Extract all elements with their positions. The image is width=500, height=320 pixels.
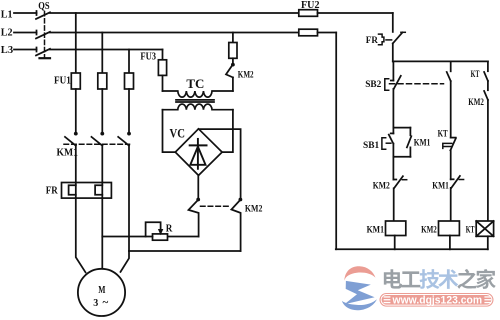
wire SB1 to KM2nc (392, 157, 394, 180)
resistor R body (153, 234, 168, 240)
watermark text 术 (438, 269, 458, 289)
wire phase W drop (128, 50, 130, 74)
watermark logo red arc (344, 266, 375, 280)
svg-text:SB2: SB2 (365, 80, 381, 90)
wire R to phase V (102, 236, 152, 238)
switch QS pole 3 (36, 48, 38, 52)
watermark text 之 (457, 269, 477, 289)
wire L2 tap to fuse (232, 33, 234, 43)
svg-text:KT: KT (471, 70, 480, 80)
wire L3 bus (50, 49, 163, 51)
svg-text:M: M (98, 285, 106, 296)
resistor R tap loop (146, 222, 161, 236)
wire SB2 to SB1 (392, 89, 394, 128)
contactor KM2 interlock contact (393, 179, 396, 181)
wire SB1 lower (392, 144, 394, 157)
svg-text:L2: L2 (1, 27, 13, 38)
transformer TC primary (163, 91, 233, 97)
contactor KM1 pole 2 (100, 132, 104, 136)
wire KM2nc to coil (393, 188, 395, 221)
button SB2 contact (394, 76, 401, 89)
svg-text:L1: L1 (1, 9, 13, 20)
svg-text:L3: L3 (1, 45, 13, 56)
resistor R arrow (158, 229, 163, 235)
svg-text:KM2: KM2 (468, 98, 484, 108)
wire L2 bus (50, 32, 299, 34)
watermark pill marks (384, 296, 391, 297)
fuse FU2b (299, 29, 318, 36)
fuse FU1c (125, 73, 134, 89)
wire U KM1 to FR (75, 146, 77, 183)
svg-text:KM2: KM2 (373, 182, 390, 192)
wire L1 bus (50, 12, 299, 14)
transformer TC secondary (163, 104, 233, 110)
svg-text:R: R (166, 223, 173, 234)
wire L2 feed (14, 32, 37, 34)
switch QS pole 2 (36, 31, 38, 35)
wire control bottom rail (336, 248, 488, 250)
wire DC- to R (168, 236, 199, 238)
wire VC+ output (199, 129, 241, 198)
wire far right drop (487, 61, 489, 71)
wire L1 feed (14, 12, 37, 14)
wire KM2 coil to rail (449, 236, 451, 250)
wire L1 to control (318, 12, 393, 14)
svg-text:KM2: KM2 (245, 205, 263, 215)
contactor KM2 brake linkage (201, 205, 231, 207)
wire TC sec left to VC (163, 110, 176, 152)
contactor KM1 pole 3 (127, 132, 131, 136)
svg-text:KM1: KM1 (414, 139, 431, 149)
wire W to motor (121, 251, 130, 272)
watermark pill (380, 293, 494, 307)
coil KT (476, 221, 493, 236)
switch QS pole 1 (36, 11, 38, 15)
fuse FU4 (229, 43, 237, 59)
button SB1 parallel top (393, 127, 410, 129)
svg-text:FR: FR (366, 36, 378, 46)
svg-text:TC: TC (186, 77, 204, 91)
wire KT to KM1nc (450, 150, 452, 179)
watermark text 家 (476, 269, 496, 289)
switch QS linkage (44, 12, 46, 57)
button SB1 contact (392, 128, 394, 134)
svg-text:www.dgjs123.com: www.dgjs123.com (392, 295, 482, 307)
wire TC sec right to VC (222, 110, 233, 152)
watermark text 工 (401, 271, 420, 287)
svg-text:3: 3 (93, 298, 98, 309)
wire SB2 upper (392, 61, 394, 80)
relay KT delayed contact (451, 137, 456, 139)
contactor KM1 linkage (64, 143, 130, 145)
wire SB2no to KT (450, 81, 452, 138)
rectifier VC bridge (175, 129, 222, 176)
contactor KM1 interlock contact (451, 178, 454, 180)
svg-text:KM1: KM1 (432, 182, 449, 192)
contactor KM2 brake pole A (196, 198, 200, 202)
wire KT to KM2no (487, 81, 489, 90)
button SB1 parallel bottom (393, 156, 410, 158)
contactor KM2 pilot contact (231, 63, 235, 67)
transformer TC core (176, 99, 214, 101)
motor M circle (78, 269, 125, 316)
wire U fuse to KM1 (75, 89, 77, 132)
svg-text:KT: KT (466, 225, 475, 235)
svg-text:SB1: SB1 (363, 141, 379, 151)
coil KM2 (439, 221, 460, 236)
watermark logo bolt (344, 281, 374, 304)
wire KM2no to KT coil (487, 100, 489, 221)
wire L3 to FU3 (162, 50, 164, 60)
wire V KM1 to FR (101, 146, 103, 183)
wire DC+ to phase W (129, 250, 241, 252)
watermark logo blue arc (342, 299, 377, 310)
wire U FR to motor (76, 198, 86, 272)
svg-text:~: ~ (103, 297, 109, 309)
coil KM1 (386, 221, 406, 236)
contactor KM1 pole 1 (74, 132, 78, 136)
svg-text:KT: KT (438, 130, 449, 140)
wire L3 feed (14, 49, 37, 51)
wire V FR to motor (101, 198, 103, 269)
contactor KM2 aux contact (484, 91, 488, 100)
relay FR heater V (101, 183, 103, 199)
fuse FU1a (71, 73, 80, 89)
relay FR box (62, 183, 112, 199)
button SB2 linkage (390, 83, 444, 85)
wire phase V drop (101, 33, 103, 74)
wire KM2 to TC (232, 77, 234, 91)
wire V fuse to KM1 (101, 89, 103, 132)
wire fuse to KM2 contact (232, 58, 234, 63)
svg-text:FU1: FU1 (54, 76, 71, 87)
svg-text:KM1: KM1 (367, 225, 385, 235)
watermark text 技 (420, 269, 440, 289)
svg-text:KM2: KM2 (421, 225, 437, 235)
wire VC- output (197, 175, 199, 197)
fuse FU3 (158, 60, 166, 76)
rectifier VC diode (197, 139, 199, 169)
relay FR control contact (379, 34, 384, 45)
watermark text 电 (384, 269, 402, 288)
svg-text:KM1: KM1 (57, 148, 79, 159)
relay FR heater U (75, 183, 77, 199)
wire control top bus (393, 60, 488, 62)
wire KM1 coil to rail (394, 236, 396, 250)
svg-text:KM2: KM2 (238, 70, 254, 80)
button SB2 no contact (450, 61, 452, 71)
wire L2 to control rail (318, 32, 337, 34)
wire control left rail (335, 33, 337, 250)
wire KM1nc to coil (450, 188, 452, 221)
wire phase U drop (75, 13, 77, 73)
contactor KM1 aux contact (409, 128, 411, 136)
wire W fuse to KM1 (128, 89, 130, 132)
svg-text:QS: QS (38, 1, 50, 12)
relay KT aux contact (484, 72, 488, 81)
svg-text:VC: VC (170, 127, 186, 141)
wire FU3 to TC (162, 75, 164, 91)
fuse FU2a (299, 10, 318, 17)
fuse FU1b (98, 73, 107, 89)
contactor KM2 brake pole B (239, 198, 243, 202)
svg-text:FU3: FU3 (140, 51, 156, 62)
wire W KM1 down (128, 146, 130, 251)
wire FR to junction (392, 43, 394, 61)
svg-text:FR: FR (46, 186, 59, 197)
